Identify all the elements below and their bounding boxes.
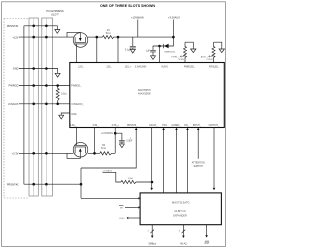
wire INPUT attention switch xyxy=(197,129,199,159)
wire A0-A2 xyxy=(182,225,184,237)
ground PWRLED branch xyxy=(185,42,193,49)
wire Q1 drain xyxy=(88,36,103,38)
dashed slot boundary xyxy=(4,19,29,199)
transistor Q2 3.3V pass FET xyxy=(73,142,88,157)
U1 top pin labels xyxy=(78,65,220,68)
diode D1 MBR0520 xyxy=(163,44,165,48)
svg-text:+12VMAIN: +12VMAIN xyxy=(131,15,144,19)
svg-text:5mΩ: 5mΩ xyxy=(106,32,111,35)
wire 3.3SENSE+ xyxy=(114,128,116,154)
svg-text:POL: POL xyxy=(162,125,167,127)
resistor R2 sense xyxy=(100,152,115,155)
svg-text:SWITCH: SWITCH xyxy=(194,166,203,168)
rail 1 centerline xyxy=(33,18,35,196)
wire FAULT to expander xyxy=(151,128,153,189)
wire 12V main run xyxy=(118,36,173,38)
wire +12V row xyxy=(19,36,73,38)
wire GND row xyxy=(19,69,58,74)
ground C2 xyxy=(151,56,156,60)
wire RST xyxy=(206,225,208,236)
wire PRSNT2 to U1 xyxy=(81,129,136,168)
wire aux feed xyxy=(153,37,174,46)
wire PRSNT#1 row xyxy=(24,26,57,30)
wire ON xyxy=(187,129,189,193)
svg-text:ON_: ON_ xyxy=(184,125,189,127)
svg-text:1μF: 1μF xyxy=(146,50,151,53)
svg-text:MAX7313ATG: MAX7313ATG xyxy=(172,201,190,205)
wire POL xyxy=(163,129,165,193)
svg-text:OUTPUT_: OUTPUT_ xyxy=(209,125,220,127)
svg-text:SLOT*: SLOT* xyxy=(51,12,59,16)
svg-text:OPEN: OPEN xyxy=(178,59,185,61)
U1 bottom pin labels xyxy=(70,124,220,127)
svg-text:10kΩ: 10kΩ xyxy=(128,177,134,180)
svg-text:3.3G_: 3.3G_ xyxy=(70,125,77,127)
svg-text:3.3VAUXO_: 3.3VAUXO_ xyxy=(71,103,84,106)
svg-text:PWRGD_: PWRGD_ xyxy=(71,86,82,88)
wire 12SENSE- xyxy=(96,37,98,62)
wire Q2 drain xyxy=(88,152,100,154)
svg-text:3.3S_+: 3.3S_+ xyxy=(112,125,120,127)
label ATNLED jumper note xyxy=(209,56,213,58)
svg-text:AUXO: AUXO xyxy=(161,65,168,68)
svg-text:10kΩ: 10kΩ xyxy=(61,93,67,96)
svg-text:PWRLED_: PWRLED_ xyxy=(184,66,196,68)
node dots rail2 xyxy=(45,25,48,186)
wire Q1 gate to 12G xyxy=(76,44,78,63)
svg-text:MBR0520L: MBR0520L xyxy=(165,51,177,53)
resistor R3 10k PWRGD pullup xyxy=(56,86,59,104)
capacitor C2 1uF aux xyxy=(150,46,156,56)
footnote mark xyxy=(129,138,131,141)
svg-text:16-BIT I/O: 16-BIT I/O xyxy=(174,210,186,213)
resistor R1 sense xyxy=(103,36,119,39)
wire PRSNT2 to expander xyxy=(81,197,139,199)
ground ATNLED branch xyxy=(214,42,222,49)
capacitor C3 0.1uF xyxy=(115,133,125,144)
wire SMBus xyxy=(151,225,153,237)
svg-text:GND: GND xyxy=(13,67,19,71)
svg-text:3.3VAUX: 3.3VAUX xyxy=(8,102,19,106)
svg-text:ATTENTION: ATTENTION xyxy=(192,162,205,165)
svg-text:+3.3VMAIN: +3.3VMAIN xyxy=(101,132,114,135)
node dots rail1 xyxy=(32,25,35,186)
ground C3 xyxy=(119,144,124,148)
resistor R5 ATNLED xyxy=(212,42,215,62)
op-amp U1 hot-plug controller box xyxy=(70,63,225,128)
resistor R6 10k FAULT pullup xyxy=(121,180,152,183)
svg-text:PRSNT#2: PRSNT#2 xyxy=(7,182,19,186)
wire PRSNT2 riser xyxy=(80,168,82,198)
svg-text:0.1μF: 0.1μF xyxy=(126,140,133,143)
svg-text:ATNLED_: ATNLED_ xyxy=(209,65,220,68)
svg-text:ATNL +: ATNL + xyxy=(201,55,209,58)
wire +3.3V row xyxy=(19,152,73,154)
svg-text:AUXEN_: AUXEN_ xyxy=(171,124,181,127)
svg-text:PWRL +: PWRL + xyxy=(171,56,180,58)
wire PWRGD row xyxy=(19,85,70,87)
wire PRSNT#2 row xyxy=(24,183,81,185)
rail 2 centerline xyxy=(45,18,47,196)
svg-text:3.3VAUXIN: 3.3VAUXIN xyxy=(135,65,147,68)
transistor Q1 12V pass FET xyxy=(73,33,88,48)
connector rail 1 xyxy=(29,18,38,196)
svg-text:12G_: 12G_ xyxy=(78,66,84,68)
svg-text:3.3S_: 3.3S_ xyxy=(92,125,99,127)
svg-text:LEDs: LEDs xyxy=(119,218,125,220)
svg-text:PWRGD: PWRGD xyxy=(9,84,19,88)
svg-text:+12V: +12V xyxy=(12,35,18,39)
svg-text:RST: RST xyxy=(205,242,210,245)
wire 12SENSE+ xyxy=(117,37,119,62)
svg-text:+3.3V: +3.3V xyxy=(12,151,19,155)
op-amp U2 I/O expander box xyxy=(140,193,221,225)
svg-text:A0-A2: A0-A2 xyxy=(180,242,187,245)
ground U1 GND pin xyxy=(61,113,70,115)
resistor R4 PWRLED xyxy=(184,42,187,62)
svg-text:+3.3VAUX: +3.3VAUX xyxy=(102,169,113,172)
U1 left pin labels xyxy=(71,86,84,116)
svg-text:MAX5958: MAX5958 xyxy=(138,92,151,96)
svg-text:GND: GND xyxy=(71,114,76,116)
svg-text:ONE OF THREE SLOTS SHOWN: ONE OF THREE SLOTS SHOWN xyxy=(100,4,155,8)
wire PRSNT#1-PRSNT#2 tie xyxy=(23,26,25,184)
svg-text:12S_+: 12S_+ xyxy=(125,66,132,68)
wire AUXEN xyxy=(176,129,178,193)
svg-text:INPUT_: INPUT_ xyxy=(193,125,202,127)
wire 3.3VAUX row xyxy=(19,103,70,105)
svg-text:SMBus: SMBus xyxy=(148,242,157,245)
wire Q2 gate to 3.3G xyxy=(76,128,78,146)
svg-text:FAULT_: FAULT_ xyxy=(149,124,158,127)
capacitor C1 0.1uF xyxy=(130,37,136,49)
svg-text:PRSNT#1: PRSNT#1 xyxy=(7,24,19,28)
svg-text:PRSNT2_: PRSNT2_ xyxy=(127,125,138,127)
wire 3.3SENSE- xyxy=(94,128,96,154)
ground PRSNT#1 xyxy=(55,30,60,34)
label PWRLED jumper note xyxy=(180,56,184,58)
svg-text:+3.3VAUX: +3.3VAUX xyxy=(168,15,180,19)
node dot 3.3VAUX/10k xyxy=(56,103,59,106)
wire to 3.3VAUXIN pin xyxy=(159,46,161,63)
svg-text:12S_: 12S_ xyxy=(106,66,112,68)
wire OUTPUT to expander xyxy=(213,128,215,189)
svg-text:OPEN: OPEN xyxy=(206,59,213,61)
svg-text:5mΩ: 5mΩ xyxy=(101,147,106,150)
ground C1 xyxy=(130,49,135,53)
connector rail 2 xyxy=(42,18,53,196)
svg-text:EXPANDER: EXPANDER xyxy=(173,214,187,217)
ground slot GND xyxy=(55,73,60,77)
border frame xyxy=(2,2,226,247)
node dot PWRGD/10k xyxy=(56,84,59,87)
